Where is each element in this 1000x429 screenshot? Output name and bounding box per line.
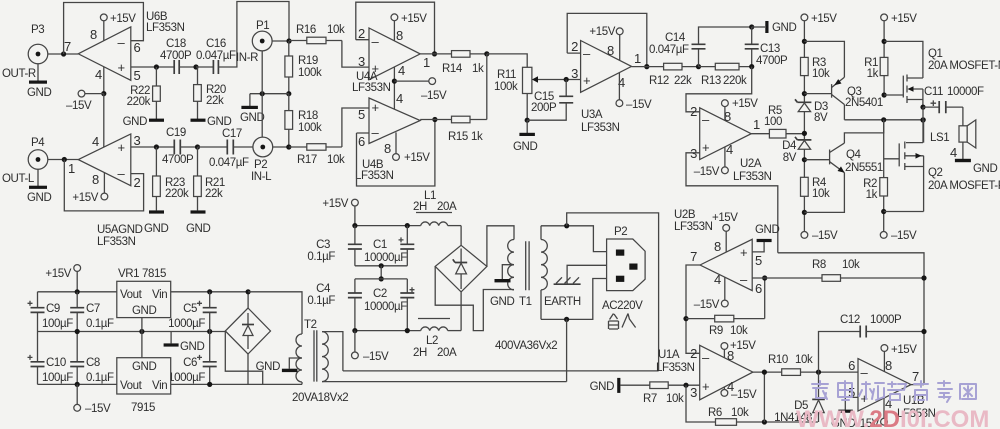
+15V terminal U1A (721, 340, 756, 358)
wire R4 to Q4 emitter rail (804, 173, 844, 213)
svg-text:–: – (861, 365, 869, 380)
wire U3A feedback loop (567, 13, 647, 66)
svg-text:20A MOSFET-N: 20A MOSFET-N (928, 60, 1000, 72)
svg-text:+15V: +15V (72, 192, 98, 204)
svg-text:GND: GND (123, 116, 147, 128)
svg-text:LF353N: LF353N (656, 362, 695, 374)
svg-text:8: 8 (885, 358, 892, 373)
svg-text:4: 4 (92, 134, 99, 149)
node P4 (62, 157, 67, 162)
node R2 bottom (881, 209, 886, 214)
-15V terminal reg out (74, 384, 111, 415)
svg-text:1k: 1k (867, 68, 879, 80)
node R10/C12/D5 (816, 370, 821, 375)
svg-text:0.047µF: 0.047µF (196, 50, 236, 62)
svg-text:LF353N: LF353N (674, 221, 713, 233)
+15V terminal U2B (712, 212, 738, 252)
svg-text:C18: C18 (166, 38, 186, 50)
svg-text:IN-R: IN-R (236, 52, 258, 64)
ground P3 (27, 64, 51, 99)
svg-text:C19: C19 (166, 127, 186, 139)
svg-text:3: 3 (690, 146, 697, 161)
wire pin3 node down to R6 (686, 385, 716, 422)
wire U4A feedback loop (356, 2, 435, 54)
ground T2 center tap (256, 358, 302, 373)
node D4/Q4 base (802, 157, 807, 162)
transformer T1 (495, 240, 557, 353)
resistor R17 10k (289, 144, 345, 166)
wire U4A pin4 / U4B pin4 (393, 67, 395, 112)
wire U1B output up (911, 384, 924, 386)
svg-text:2: 2 (571, 39, 578, 54)
resistor R5 100 (751, 105, 804, 138)
resistor R2 1k (863, 178, 887, 232)
+15V terminal U4A pin8 (391, 13, 427, 41)
svg-text:C12: C12 (840, 314, 860, 326)
svg-text:R15: R15 (448, 131, 468, 143)
node -15V op supply (392, 79, 397, 84)
svg-text:1000µF: 1000µF (168, 318, 205, 330)
svg-text:200P: 200P (531, 102, 557, 114)
node C18/R20 (193, 64, 198, 69)
svg-text:5: 5 (755, 253, 762, 268)
inductor L2 2H 20A (413, 319, 461, 360)
svg-text:2N5401: 2N5401 (845, 97, 883, 109)
svg-text:7: 7 (690, 249, 697, 264)
svg-text:3: 3 (690, 385, 697, 400)
-15V terminal main (352, 331, 389, 363)
svg-text:400VA36Vx2: 400VA36Vx2 (495, 340, 557, 352)
svg-text:10k: 10k (812, 68, 830, 80)
svg-text:1: 1 (634, 51, 641, 66)
svg-text:6: 6 (755, 281, 762, 296)
svg-text:GND: GND (240, 112, 264, 124)
wire Q3 base (804, 93, 831, 95)
wire L1 to bridge top (460, 226, 462, 246)
wire R11 bottom to gnd node (526, 94, 528, 121)
node R19/shell (286, 91, 291, 96)
node C3 top (352, 223, 357, 228)
resistor R12 22k (632, 63, 699, 87)
op-amp U5 U5AGND (68, 133, 143, 248)
capacitor C12 1000P (819, 314, 925, 372)
node T1 primary top / T2 branch (564, 223, 569, 228)
svg-text:–: – (702, 112, 710, 127)
svg-text:20A: 20A (437, 347, 457, 359)
resistor R23 220k (153, 147, 189, 210)
wire U5 feedback loop to pin 2 (64, 160, 143, 211)
svg-text:8V: 8V (814, 112, 828, 124)
node U3A output (644, 64, 649, 69)
svg-text:0.047µF: 0.047µF (649, 44, 689, 56)
svg-text:R18: R18 (298, 110, 318, 122)
+15V terminal U6B pin8 (100, 13, 136, 41)
op-amp U1B (848, 358, 935, 420)
ground U2B pin5 (752, 224, 779, 252)
mid rail Q3/Q4 to gate rail (844, 119, 923, 121)
node regulator gnd (139, 329, 144, 334)
svg-text:WWW.2DI0I.COM: WWW.2DI0I.COM (796, 406, 989, 429)
wire +15V top rail (38, 291, 249, 293)
wire bridge bottom to L2 (460, 292, 462, 331)
svg-text:220k: 220k (165, 188, 189, 200)
svg-text:3: 3 (571, 66, 578, 81)
svg-text:2: 2 (134, 175, 141, 190)
svg-text:+: + (118, 60, 125, 75)
+15V terminal main (322, 198, 358, 226)
capacitor C13 4700P (745, 27, 788, 67)
resistor R7 10k (620, 382, 699, 405)
svg-text:+: + (583, 73, 590, 88)
+15V terminal U4B pin8 (393, 132, 431, 164)
svg-text:GND: GND (590, 381, 614, 393)
svg-text:C6: C6 (183, 357, 197, 369)
svg-text:GND: GND (27, 192, 51, 204)
capacitor C9 100uF (28, 301, 74, 330)
svg-text:+15V: +15V (322, 198, 348, 210)
svg-text:100k: 100k (298, 67, 322, 79)
svg-text:0.1µF: 0.1µF (86, 372, 114, 384)
ground R21 (186, 210, 210, 235)
resistor R8 10k (752, 259, 924, 281)
svg-text:R13: R13 (701, 75, 721, 87)
svg-text:–15V: –15V (891, 230, 917, 242)
node P1 shell (260, 91, 265, 96)
+15V terminal R1 (881, 13, 918, 57)
node C1 top (405, 223, 410, 228)
svg-text:20A MOSFET-P: 20A MOSFET-P (928, 180, 1000, 192)
svg-text:220k: 220k (723, 75, 747, 87)
node output rail mid (921, 117, 926, 122)
svg-text:R14: R14 (442, 63, 463, 75)
capacitor C1 10000uF (364, 226, 414, 266)
wire Q4 base (804, 159, 829, 161)
svg-text:–15V: –15V (66, 100, 92, 112)
svg-text:8: 8 (396, 28, 403, 43)
svg-text:1k: 1k (866, 189, 878, 201)
node +15V/Q3 emitter rail (802, 39, 807, 44)
regulator 7915 (117, 358, 171, 414)
svg-text:GND: GND (256, 361, 280, 373)
svg-text:6: 6 (848, 358, 855, 373)
node pin5/R22 (154, 64, 159, 69)
svg-text:4: 4 (726, 142, 733, 157)
node U4A output (432, 51, 437, 56)
wire P4 to U5 (48, 159, 79, 161)
svg-text:7: 7 (64, 39, 71, 54)
svg-text:T1: T1 (519, 296, 532, 308)
node R6/U1A output link (762, 419, 767, 424)
svg-text:Q2: Q2 (928, 167, 943, 179)
capacitor C11 10000F (923, 86, 984, 113)
svg-text:LF353N: LF353N (97, 236, 136, 248)
node -15V supply (101, 91, 106, 96)
svg-text:2: 2 (358, 26, 365, 41)
wire regulator gnd link (141, 318, 143, 358)
op-amp U1A (656, 345, 753, 400)
wire T1 primary bottom (541, 279, 607, 320)
zener D4 8V (782, 137, 811, 177)
svg-text:22k: 22k (206, 95, 224, 107)
svg-text:8: 8 (384, 141, 391, 156)
node bus link bottom (379, 276, 384, 281)
svg-text:4: 4 (398, 63, 405, 78)
node C19/R21 (195, 144, 200, 149)
svg-text:1000µF: 1000µF (168, 372, 205, 384)
op-amp U3A (571, 39, 641, 134)
svg-text:–15V: –15V (694, 166, 720, 178)
ground R7 (590, 378, 621, 393)
svg-text:–15V: –15V (812, 230, 838, 242)
svg-text:4700P: 4700P (162, 154, 194, 166)
svg-text:–15V: –15V (626, 99, 652, 111)
diode D5 1N4148 (774, 372, 825, 424)
connector P3 (2, 24, 48, 80)
wire T2 secondary bottom (301, 382, 303, 384)
capacitor C3 0.1uF (307, 226, 362, 266)
resistor R9 10k (686, 315, 765, 337)
inductor L1 2H 20A (413, 190, 461, 226)
svg-text:2N5551: 2N5551 (845, 162, 883, 174)
svg-text:0.047µF: 0.047µF (209, 157, 249, 169)
+15V terminal bias chain (801, 13, 837, 57)
svg-text:GND: GND (973, 163, 997, 175)
op-amp U2A (690, 104, 771, 183)
-15V terminal U4 (394, 78, 447, 102)
svg-text:–15V: –15V (731, 389, 757, 401)
svg-text:+15V: +15V (730, 340, 756, 352)
resistor R15 1k (420, 116, 487, 143)
svg-text:100k: 100k (494, 81, 518, 93)
wire bus link (380, 266, 382, 279)
ground R20 (191, 101, 232, 128)
op-amp U4A (352, 26, 430, 94)
node bridge + rail (246, 289, 251, 294)
svg-text:+: + (118, 140, 125, 155)
svg-text:GND: GND (132, 361, 156, 373)
svg-text:7915: 7915 (131, 402, 155, 414)
svg-text:C16: C16 (206, 38, 226, 50)
wire shell bus (250, 93, 289, 95)
capacitor C5 1000uF (168, 292, 217, 332)
svg-text:C2: C2 (373, 288, 387, 300)
svg-text:2: 2 (690, 346, 697, 361)
wire bridge left AC jog (435, 266, 514, 330)
svg-text:20VA18Vx2: 20VA18Vx2 (292, 392, 348, 404)
wire P1 shell down (261, 51, 263, 94)
svg-text:C8: C8 (86, 357, 100, 369)
wire mid gnd rail (38, 331, 226, 333)
svg-text:2H: 2H (413, 201, 427, 213)
+15V terminal U2A (722, 98, 759, 120)
node Q1 source / C11 (920, 105, 925, 110)
svg-text:P3: P3 (31, 24, 44, 36)
node R7/U1A pin3 (683, 383, 688, 388)
svg-text:C17: C17 (222, 128, 242, 140)
wire T2 secondary top (248, 292, 302, 334)
wire U5 pin4 up to -15V node (103, 94, 105, 148)
svg-text:C11: C11 (924, 86, 943, 98)
svg-text:5: 5 (134, 68, 141, 83)
svg-text:LF353N: LF353N (146, 22, 185, 34)
svg-text:7815: 7815 (142, 268, 166, 280)
node C8 bottom (75, 382, 80, 387)
svg-text:R12: R12 (649, 75, 669, 87)
svg-text:8: 8 (92, 172, 99, 187)
wire T2 primary top to AC rail (322, 332, 343, 371)
svg-text:4700P: 4700P (756, 55, 788, 67)
op-amp U2B (674, 209, 762, 296)
transformer T2 (292, 319, 348, 404)
node P3/feedback junction (61, 51, 66, 56)
bridge rectifier (main supply) (435, 245, 487, 292)
ground R23 (144, 210, 168, 235)
node C14/C13/GND rail (749, 24, 754, 29)
svg-text:GND: GND (207, 116, 231, 128)
svg-text:8: 8 (607, 43, 614, 58)
wire branch down to lower AC rail (566, 319, 568, 381)
svg-text:GND: GND (27, 87, 51, 99)
svg-text:2H: 2H (413, 347, 427, 359)
svg-text:AC220V: AC220V (602, 300, 643, 312)
wire U2B pin7 to R9 node (686, 265, 700, 353)
svg-text:0.1µF: 0.1µF (307, 251, 335, 263)
svg-text:Q1: Q1 (928, 48, 943, 60)
-15V terminal R4 (801, 230, 838, 242)
svg-text:10k: 10k (327, 154, 345, 166)
wire U6B pin5 output (131, 66, 174, 68)
svg-text:–: – (740, 272, 748, 287)
node P1/R16/R19 (286, 38, 291, 43)
capacitor C2 10000uF (364, 279, 415, 331)
wire cap bus upper (355, 265, 407, 267)
svg-text:10k: 10k (666, 393, 684, 405)
node U4B output (432, 117, 437, 122)
node U2B pin6 / R8 (762, 275, 767, 280)
node gate rail mid (881, 117, 886, 122)
svg-text:C10: C10 (46, 357, 66, 369)
transistor Q3 2N5401 (832, 77, 883, 109)
node U1A output (762, 370, 767, 375)
node R11/C15 gnd (525, 118, 530, 123)
wire P2 to node (273, 146, 289, 148)
speaker LS1 (930, 107, 976, 160)
svg-text:0.1µF: 0.1µF (86, 318, 114, 330)
node +15V/Q1 drain rail (882, 39, 887, 44)
wire bridge bottom to -rail (247, 354, 249, 384)
svg-text:+15V: +15V (732, 98, 758, 110)
wire T2 primary bottom AC rail lower (322, 381, 567, 383)
wire R2 bottom to Q2 source (884, 211, 924, 213)
capacitor C10 100uF (28, 355, 74, 384)
svg-text:8: 8 (714, 239, 721, 254)
node D3/D4/R5 (802, 131, 807, 136)
node P2/R17/R18 (286, 144, 291, 149)
svg-text:–: – (118, 166, 126, 181)
node R11 wiper / U3A pin3 (564, 77, 569, 82)
node C7 top (75, 289, 80, 294)
svg-text:10k: 10k (842, 259, 860, 271)
wire U5 pin3 chain (131, 146, 175, 148)
+15V terminal U3A (589, 26, 623, 60)
svg-text:C1: C1 (373, 239, 387, 251)
svg-text:+: + (702, 140, 709, 155)
-15V terminal R2 (880, 230, 917, 242)
svg-text:C14: C14 (665, 32, 686, 44)
potentiometer R11 100k (494, 67, 581, 93)
node R13/C13 (749, 64, 754, 69)
svg-text:–15V: –15V (85, 403, 111, 415)
connector P4 (2, 137, 48, 185)
svg-text:20A: 20A (437, 201, 457, 213)
svg-text:1k: 1k (471, 131, 483, 143)
svg-text:+: + (740, 245, 747, 260)
svg-text:10k: 10k (731, 407, 749, 419)
capacitor C7 0.1uF (70, 292, 114, 362)
capacitor C17 0.047uF (198, 128, 253, 169)
svg-text:1: 1 (68, 161, 75, 176)
svg-text:Vout: Vout (120, 380, 143, 392)
svg-text:220k: 220k (127, 96, 151, 108)
svg-text:4: 4 (95, 67, 102, 82)
svg-text:100: 100 (764, 116, 782, 128)
svg-text:GND: GND (180, 341, 204, 353)
resistor R20 22k (194, 67, 226, 107)
svg-text:Vout: Vout (120, 289, 143, 301)
wire cap bus lower (355, 278, 407, 280)
wire C16 to P1 center node (218, 2, 289, 68)
ground input shells (240, 94, 264, 124)
svg-text:P1: P1 (256, 20, 269, 32)
resistor R22 220k (127, 67, 161, 108)
svg-text:LS1: LS1 (930, 132, 949, 144)
wire R17 to U4B pin5 (342, 108, 369, 147)
resistor R6 10k (708, 407, 818, 425)
node R4 bottom rail (802, 210, 807, 215)
wire output node down to Q2 drain (922, 107, 924, 143)
svg-text:OUT-L: OUT-L (2, 173, 35, 185)
wire bottom rail (38, 383, 303, 385)
wire T1 primary top rail (541, 226, 607, 252)
ground T1 center tap (490, 265, 514, 308)
wire R9 to U2B pin6 (764, 278, 766, 319)
svg-text:IN-L: IN-L (251, 171, 272, 183)
svg-text:VR1: VR1 (118, 268, 139, 280)
wire -15V bus to L2 (355, 330, 421, 332)
svg-text:8: 8 (90, 27, 97, 42)
svg-text:5: 5 (358, 107, 365, 122)
svg-text:R19: R19 (298, 55, 318, 67)
wire shell to P2 (261, 94, 263, 137)
svg-text:P4: P4 (31, 137, 45, 149)
svg-text:C4: C4 (316, 283, 331, 295)
node R14/R15 tie (484, 51, 489, 56)
ground top rail (752, 21, 797, 34)
resistor R21 22k (194, 147, 225, 210)
svg-text:–: – (372, 34, 380, 49)
svg-text:T2: T2 (304, 319, 317, 331)
node C2 bottom (405, 328, 410, 333)
label AC input (Chinese) (609, 314, 636, 330)
svg-text:100µF: 100µF (42, 318, 73, 330)
capacitor C4 0.1uF (307, 279, 362, 331)
ground mid rail (164, 332, 205, 354)
svg-text:+15V: +15V (891, 344, 917, 356)
-15V terminal U2B (694, 277, 728, 311)
node output rail top (920, 117, 925, 122)
node C5 top (207, 289, 212, 294)
wire gate rail down to R2 (883, 120, 885, 178)
